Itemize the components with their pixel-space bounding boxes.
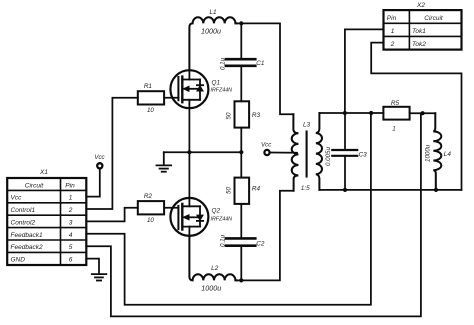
wire R4 to C2 xyxy=(240,204,242,237)
node junction Q1 source / Q2 source / ground xyxy=(187,150,191,154)
transistor Q2 IRFZ44N (mirrored) xyxy=(170,198,208,236)
svg-text:0.1u: 0.1u xyxy=(220,234,227,247)
wire R5 right lead to L4 xyxy=(410,112,436,114)
svg-text:R3: R3 xyxy=(252,112,261,119)
svg-text:10: 10 xyxy=(147,217,154,224)
svg-text:1: 1 xyxy=(392,126,395,133)
svg-text:1: 1 xyxy=(69,195,73,202)
wire R1 left lead to X1 pin2 xyxy=(86,98,138,209)
Vcc terminal (X1 side) xyxy=(97,163,102,168)
svg-text:X1: X1 xyxy=(39,169,48,176)
wire X2 pin2 to secondary bottom rail xyxy=(371,43,461,190)
wire feedback2 (X1 pin5 to R5 right) xyxy=(86,113,421,316)
resistor R1 xyxy=(138,91,164,104)
ground GND2 xyxy=(92,274,107,280)
resistor R5 xyxy=(383,107,409,120)
svg-text:Feedback1: Feedback1 xyxy=(11,232,44,239)
svg-text:Tok1: Tok1 xyxy=(412,28,426,35)
wire C2 to bottom rail xyxy=(240,246,242,281)
transformer L3 primary winding xyxy=(292,114,299,191)
svg-text:R2: R2 xyxy=(144,193,153,200)
svg-text:10: 10 xyxy=(147,107,154,114)
resistor R3 xyxy=(235,101,250,127)
svg-text:L4: L4 xyxy=(444,151,452,158)
transformer L3 secondary winding xyxy=(316,113,322,190)
svg-text:2: 2 xyxy=(68,207,73,214)
inductor L2 xyxy=(189,236,237,280)
capacitor C2 xyxy=(226,238,255,245)
wire X1 pin1 to Vcc terminal xyxy=(86,169,100,197)
wire ground junction to Q2 source xyxy=(188,152,190,198)
svg-text:Feedback2: Feedback2 xyxy=(11,244,44,251)
wire ground junction to R4 xyxy=(240,152,242,177)
svg-text:Control2: Control2 xyxy=(11,219,36,226)
svg-text:Control1: Control1 xyxy=(11,207,36,214)
svg-text:1: 1 xyxy=(391,28,395,35)
connector X2 table xyxy=(384,10,462,50)
wire Vcc terminal to center tap xyxy=(270,152,297,154)
connector X1 table xyxy=(7,178,86,265)
svg-text:1:5: 1:5 xyxy=(301,185,310,192)
svg-text:L3: L3 xyxy=(303,122,311,129)
wire R1 right lead to Q1 gate xyxy=(164,97,178,99)
wire secondary top rail xyxy=(319,112,371,114)
wire X1 pin6 to ground xyxy=(86,259,99,274)
capacitor C1 xyxy=(226,59,255,66)
svg-text:L2: L2 xyxy=(211,265,219,272)
svg-text:50: 50 xyxy=(226,187,233,194)
svg-text:Pin: Pin xyxy=(387,15,397,22)
node junction top rail / C3 / X2 pin1 xyxy=(343,111,347,115)
svg-text:C1: C1 xyxy=(256,60,265,67)
svg-text:1000u: 1000u xyxy=(425,144,432,162)
svg-text:1000u: 1000u xyxy=(201,27,221,36)
svg-text:Circuit: Circuit xyxy=(25,182,45,189)
resistor R2 xyxy=(138,201,164,214)
Vcc terminal (center tap) xyxy=(264,150,269,155)
wire X2 pin1 to secondary top rail xyxy=(345,29,384,113)
node junction top rail / C1 xyxy=(239,21,243,25)
transistor Q1 IRFZ44N xyxy=(170,70,208,108)
resistor R4 xyxy=(235,178,250,204)
svg-text:L1: L1 xyxy=(209,9,217,16)
wire R3 to ground junction xyxy=(240,128,242,153)
svg-text:C3: C3 xyxy=(359,152,368,159)
svg-text:R1: R1 xyxy=(144,83,153,90)
svg-text:50: 50 xyxy=(226,112,233,119)
svg-text:5: 5 xyxy=(69,244,73,251)
svg-text:Vcc: Vcc xyxy=(261,142,272,149)
svg-text:IRFZ44N: IRFZ44N xyxy=(211,88,233,94)
svg-text:0.1u: 0.1u xyxy=(220,57,227,70)
node junction top rail / R5 / feedback1 xyxy=(369,111,373,115)
inductor L4 xyxy=(433,113,441,190)
svg-text:Q1: Q1 xyxy=(212,80,221,87)
wire Q1 source to ground junction xyxy=(188,108,190,152)
node junction R3/R4/ground xyxy=(239,150,243,154)
wire bottom rail L2 to transformer primary bottom xyxy=(237,191,294,281)
svg-text:Vcc: Vcc xyxy=(11,195,23,202)
svg-text:IRFZ44N: IRFZ44N xyxy=(211,217,233,223)
svg-text:C2: C2 xyxy=(256,241,265,248)
node junction R5 / L4 / feedback2 xyxy=(421,111,425,115)
svg-text:0.005u: 0.005u xyxy=(325,147,332,166)
wire C1 to R3 xyxy=(240,66,242,102)
wire R5 left lead xyxy=(371,112,383,114)
svg-text:Vcc: Vcc xyxy=(94,154,105,161)
capacitor C3 xyxy=(344,113,346,149)
wire top rail L1 to transformer primary top xyxy=(237,23,294,114)
svg-text:2: 2 xyxy=(390,41,395,48)
svg-text:R4: R4 xyxy=(252,186,261,193)
ground GND1 xyxy=(157,152,172,172)
inductor L1 xyxy=(189,17,237,70)
wire secondary bottom rail xyxy=(319,189,461,191)
svg-text:4: 4 xyxy=(69,232,73,239)
wire C1 top lead xyxy=(240,23,242,58)
node junction C2 / L2 rail xyxy=(239,278,243,282)
svg-text:Q2: Q2 xyxy=(212,208,221,215)
svg-text:Circuit: Circuit xyxy=(424,15,444,22)
node junction C3 / bottom rail xyxy=(343,188,347,192)
svg-text:Pin: Pin xyxy=(65,182,75,189)
wire ground rail xyxy=(164,151,242,153)
svg-text:GND: GND xyxy=(11,257,26,264)
svg-text:1000u: 1000u xyxy=(201,283,221,292)
svg-text:Tok2: Tok2 xyxy=(412,41,426,48)
wire R2 left lead to X1 pin3 xyxy=(86,208,138,222)
svg-text:6: 6 xyxy=(69,257,73,264)
svg-text:R5: R5 xyxy=(391,100,400,107)
transformer core xyxy=(306,132,308,177)
svg-text:X2: X2 xyxy=(416,2,425,9)
node junction L4 / bottom rail xyxy=(434,188,438,192)
svg-text:3: 3 xyxy=(69,219,73,226)
wire R2 right lead to Q2 gate xyxy=(164,207,178,209)
wire feedback1 (X1 pin4 to R5 left) xyxy=(86,113,371,305)
